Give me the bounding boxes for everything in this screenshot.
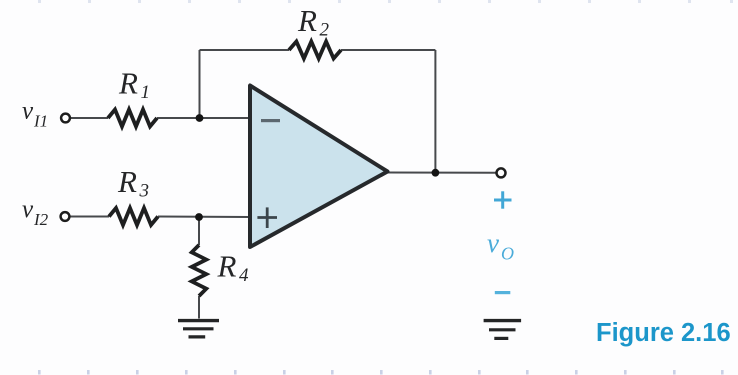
svg-text:2: 2 bbox=[320, 20, 330, 41]
svg-text:1: 1 bbox=[141, 82, 151, 103]
svg-text:O: O bbox=[501, 244, 514, 264]
svg-text:3: 3 bbox=[139, 181, 150, 202]
svg-text:Figure 2.16: Figure 2.16 bbox=[596, 319, 731, 347]
svg-text:4: 4 bbox=[239, 265, 249, 286]
svg-text:R: R bbox=[217, 249, 237, 284]
svg-text:I2: I2 bbox=[33, 210, 49, 229]
svg-text:v: v bbox=[22, 98, 34, 125]
svg-text:I1: I1 bbox=[33, 112, 48, 131]
svg-text:v: v bbox=[487, 228, 499, 258]
svg-text:R: R bbox=[118, 66, 138, 101]
svg-text:v: v bbox=[22, 196, 34, 223]
svg-text:R: R bbox=[297, 3, 317, 38]
svg-text:R: R bbox=[117, 164, 137, 199]
